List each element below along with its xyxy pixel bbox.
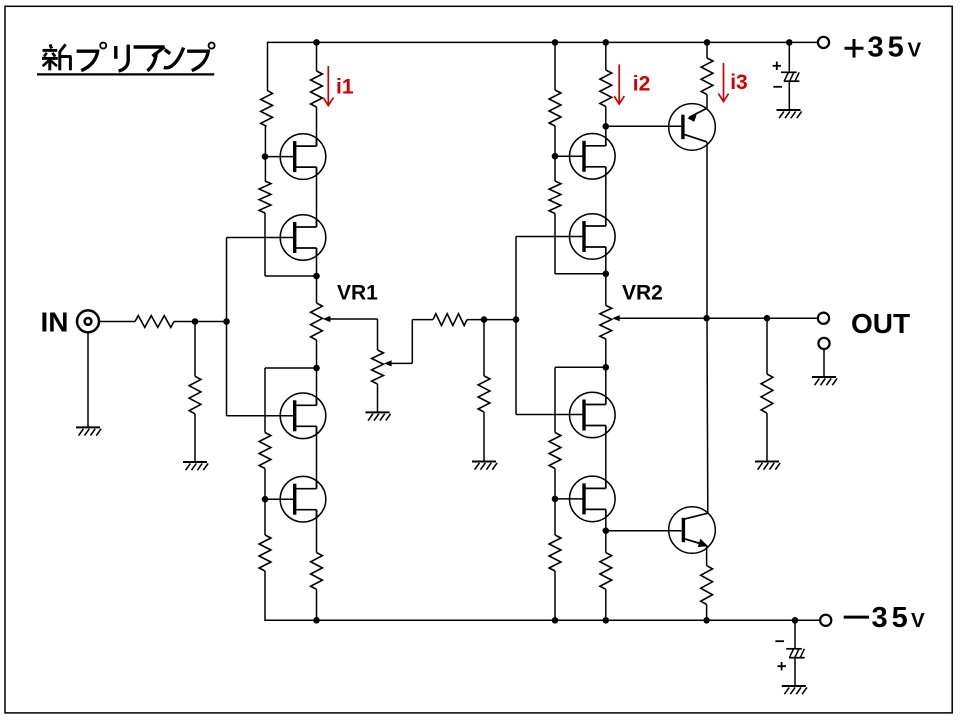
wire R9 to -rail corner	[264, 571, 266, 621]
wire R15 to -rail	[554, 571, 556, 620]
capacitor C1 (electrolytic, + to +35V)	[781, 71, 797, 73]
VR1 wiper arrow	[323, 316, 331, 322]
node S (-rail)	[552, 617, 559, 624]
wire R14 to R15	[554, 469, 556, 536]
wire lower chain down	[264, 368, 266, 433]
svg-text:V: V	[911, 609, 925, 632]
C2 minus sign	[775, 640, 784, 642]
wire Q8 source to R16	[605, 509, 607, 552]
wire Q6 gate	[516, 236, 586, 238]
node L (Q6 source)	[603, 271, 610, 278]
potentiometer VR1	[311, 303, 323, 340]
node T (Q9 base tap)	[603, 527, 610, 534]
svg-text:35: 35	[872, 602, 912, 634]
wire Q7 source to Q8 drain	[605, 426, 607, 489]
wire Q2 gate	[227, 237, 297, 239]
resistor R8 (lower bias)	[259, 433, 271, 469]
title kanji 新	[50, 44, 52, 48]
wire lower chain 2 down	[554, 367, 556, 432]
resistor R13 (i2 drain load)	[600, 70, 612, 107]
resistor R11 (upper bias)	[549, 90, 561, 126]
wire trimmer wiper to R6	[391, 362, 412, 364]
wire -rail to C2	[794, 620, 796, 649]
wire VR2 to node Q	[605, 339, 607, 367]
resistor R15 (lower bias)	[549, 535, 561, 571]
svg-text:V: V	[908, 39, 922, 62]
wire R3 to R4	[264, 126, 266, 181]
resistor R10 (source degeneration)	[311, 553, 323, 590]
C2 plus sign	[777, 665, 786, 667]
node Q (Q7 drain node)	[603, 364, 610, 371]
JFET Q6 (cascode lower)	[570, 214, 616, 260]
RCA jack IN (center pin)	[85, 318, 92, 325]
wire VR1 wiper to trimmer	[330, 318, 377, 320]
wire R4 to Q2 source node	[264, 213, 266, 276]
wire Q3 source to Q4 drain	[316, 426, 318, 488]
wire Q4 source to R10	[316, 510, 318, 553]
wire gate feed stage1 (vertical)	[226, 238, 228, 416]
svg-text:i2: i2	[633, 73, 651, 96]
title katakana リ	[114, 46, 117, 59]
wire R13 to Q5 drain	[605, 107, 607, 146]
wire Q10 base (from node T)	[606, 530, 682, 532]
wire Q5 source to Q6 drain	[605, 167, 607, 226]
wire +rail corner to R3	[267, 42, 269, 91]
ground below trimmer	[366, 411, 390, 413]
resistor R6 (interstage)	[433, 314, 467, 326]
node B (input/gate node)	[223, 318, 230, 325]
ground below R2	[183, 461, 207, 463]
node G (Q3 drain node)	[313, 365, 320, 372]
wire R8 to R9	[264, 469, 266, 536]
label +35V plus sign	[845, 47, 864, 50]
wire OUT node to Q10 collector	[706, 318, 709, 513]
current arrow i2	[618, 65, 620, 104]
wire Q9 collector to OUT node	[706, 142, 708, 318]
wire +rail to C1	[788, 42, 790, 72]
node W (-rail)	[703, 617, 710, 624]
wire node A down to R2	[194, 322, 196, 377]
JFET Q4 (lower cascode)	[280, 476, 326, 522]
svg-text:OUT: OUT	[851, 308, 910, 339]
resistor R7 (to ground)	[478, 376, 490, 412]
JFET Q7 (lower cascode)	[570, 392, 616, 438]
wire R5 to Q1 drain	[316, 107, 318, 146]
wire Q5 base (from node N)	[606, 125, 682, 127]
node I (-rail junction)	[313, 617, 320, 624]
wire Q10 emitter to R19	[706, 546, 708, 566]
ground below R17	[755, 461, 779, 463]
node +rail/C1 junction	[786, 39, 793, 46]
node V (+rail)	[704, 39, 711, 46]
resistor R18 (i3 emitter)	[701, 58, 713, 95]
wire R7 to ground	[483, 412, 485, 461]
wire Q6 source to node L	[605, 247, 607, 274]
wire -35V bottom rail	[265, 619, 820, 621]
node +rail/R5 junction	[313, 39, 320, 46]
C1 plus sign	[773, 65, 781, 67]
resistor R1 (series input)	[135, 316, 174, 328]
resistor R17 (output load)	[761, 374, 773, 413]
trimmer wiper arrow	[384, 360, 392, 366]
wire C2 to ground	[794, 658, 796, 686]
wire +rail to R13	[605, 42, 607, 70]
wire jack to ground	[87, 332, 89, 427]
wire C1 to ground	[788, 81, 790, 110]
wire R6 to stage2 feed	[467, 319, 516, 321]
wire node P to R17	[766, 318, 768, 374]
node U (-rail)	[603, 617, 610, 624]
node N (Q8 base tap)	[603, 123, 610, 130]
resistor R3 (upper bias)	[261, 91, 273, 127]
wire +rail to R11	[554, 42, 556, 90]
resistor R16 (source degeneration)	[600, 553, 612, 590]
terminal OUT (hot)	[818, 313, 829, 324]
wire Q1 source to Q2 drain	[316, 167, 318, 227]
wire node E to R7	[483, 320, 485, 376]
wire R10 to -rail	[316, 589, 318, 620]
wire Q2 source to node D	[316, 248, 318, 276]
node J (+rail to stage2 bias)	[552, 39, 559, 46]
wire Q7 gate	[516, 414, 586, 416]
ground below IN jack	[76, 426, 100, 428]
resistor R5 (i1 drain load)	[311, 71, 323, 107]
wire R19 to -rail	[706, 604, 708, 620]
terminal OUT (ground)	[818, 338, 829, 349]
svg-text:VR1: VR1	[337, 282, 378, 305]
svg-text:i3: i3	[730, 71, 748, 94]
terminal -35V	[820, 615, 831, 626]
ground below OUT terminal	[812, 376, 836, 378]
JFET Q5 (cascode upper)	[570, 134, 616, 180]
wire R11 to R12	[554, 126, 556, 181]
resistor R19 (emitter)	[701, 566, 713, 605]
wire node G to Q3 drain	[316, 368, 318, 405]
wire +rail to R18	[706, 42, 708, 58]
JFET Q3 (lower cascode)	[280, 393, 326, 439]
wire Q4 gate	[265, 498, 296, 500]
node F (stage2 gate node)	[513, 316, 520, 323]
wire OUT ground terminal	[823, 349, 825, 377]
potentiometer VR2	[600, 305, 612, 339]
VR2 wiper arrow	[612, 315, 620, 321]
svg-text:35: 35	[868, 32, 908, 64]
ground below C1	[777, 109, 801, 111]
ground below C2	[782, 685, 806, 687]
transistor Q9 (PNP upper output)	[669, 104, 716, 151]
wire node Q to Q7 drain	[605, 367, 607, 404]
title katakana ア	[134, 45, 165, 48]
ground below R7	[472, 461, 496, 463]
title katakana プ	[100, 43, 106, 49]
title katakana ン	[165, 50, 170, 54]
capacitor C2 (electrolytic, + to ground side)	[786, 648, 802, 650]
svg-text:IN: IN	[41, 306, 69, 337]
wire R18 to Q9 emitter	[706, 95, 708, 109]
node A (R2 tap)	[192, 318, 199, 325]
title katakana プ(2)	[209, 43, 215, 49]
trimmer VR (stage1 offset)	[372, 350, 384, 384]
wire VR2 wiper to OUT	[620, 317, 818, 319]
node O (output/collector)	[703, 315, 710, 322]
wire R16 to -rail	[605, 589, 607, 620]
node H (Q4 gate bias)	[262, 496, 269, 503]
RCA jack IN (outer ring)	[77, 310, 99, 332]
wire R17 to ground	[766, 413, 768, 461]
wire R2 to ground	[194, 414, 196, 462]
wire Q1 gate	[265, 156, 296, 158]
wire Q5 gate	[555, 155, 586, 157]
wire R12 to Q6 source node	[554, 214, 556, 274]
JFET Q1 (cascode upper)	[280, 134, 326, 180]
JFET Q2 (cascode lower)	[280, 215, 326, 261]
wire +rail to R5	[316, 42, 318, 71]
wire node Q to lower bias chain	[555, 366, 606, 368]
terminal +35V	[818, 37, 829, 48]
wire node L to VR2	[605, 274, 607, 306]
wire trimmer to ground	[377, 384, 379, 412]
node D (Q2 source)	[313, 273, 320, 280]
node -rail/C2 junction	[792, 617, 799, 624]
wire Q3 gate	[227, 415, 297, 417]
node R (Q8 gate bias)	[552, 496, 559, 503]
wire +35V top rail	[268, 41, 818, 43]
transistor Q10 (NPN lower output)	[669, 507, 716, 554]
JFET Q8 (lower cascode)	[570, 476, 616, 522]
svg-text:i1: i1	[336, 76, 354, 99]
node M (+rail)	[603, 39, 610, 46]
node P (R17 tap)	[764, 315, 771, 322]
node C (Q1 gate bias)	[262, 153, 269, 160]
label -35V minus sign	[844, 616, 869, 619]
wire node G to lower bias chain	[265, 367, 317, 369]
wire IN jack to R1	[99, 321, 135, 323]
current arrow i1	[327, 66, 329, 105]
resistor R14 (lower bias)	[549, 433, 561, 469]
resistor R9 (lower bias)	[259, 535, 271, 571]
wire node D to VR1	[316, 276, 318, 303]
wire Q8 gate	[555, 498, 586, 500]
resistor R4 (upper bias)	[259, 181, 271, 213]
wire R1 to input node	[174, 321, 227, 323]
resistor R12 (upper bias)	[549, 181, 561, 214]
wire VR1 to node G	[316, 340, 318, 368]
svg-text:VR2: VR2	[622, 282, 663, 305]
C1 minus sign	[773, 86, 782, 88]
wire gate feed stage2 (vertical)	[515, 237, 517, 415]
title underline	[37, 73, 214, 75]
current arrow i3	[723, 63, 725, 101]
node E (R7 tap)	[481, 316, 488, 323]
resistor R2 (input to ground)	[189, 376, 201, 414]
node K (Q5 gate bias)	[552, 153, 559, 160]
